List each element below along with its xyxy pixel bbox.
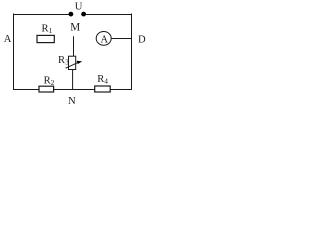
svg-text:D: D <box>138 35 146 46</box>
wire right border <box>131 14 133 91</box>
wire from M down to R3 <box>73 36 75 56</box>
svg-text:A: A <box>4 34 12 45</box>
wire ammeter to right border <box>111 38 132 40</box>
terminal dot left of U <box>69 12 74 17</box>
svg-text:R2: R2 <box>44 76 55 88</box>
wire top-left segment <box>14 14 70 16</box>
resistor R1 <box>37 24 54 43</box>
wire left border <box>13 14 15 91</box>
resistor R2 <box>39 76 55 93</box>
svg-text:M: M <box>70 21 80 33</box>
svg-text:R1: R1 <box>42 24 53 35</box>
terminal dot right of U <box>81 12 86 17</box>
svg-text:N: N <box>68 96 76 107</box>
wire top-right segment <box>86 14 133 16</box>
svg-text:R4: R4 <box>97 74 108 86</box>
wire from R3 down to N <box>72 70 74 90</box>
ammeter A <box>96 32 111 46</box>
rheostat R3 <box>58 55 82 70</box>
svg-text:A: A <box>100 35 108 46</box>
svg-text:R3: R3 <box>58 55 69 67</box>
svg-text:U: U <box>75 2 83 13</box>
wire bottom <box>14 89 133 91</box>
resistor R4 <box>95 74 111 92</box>
